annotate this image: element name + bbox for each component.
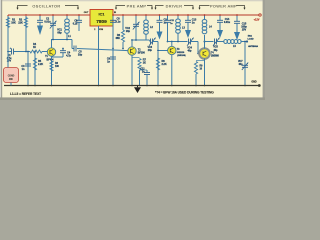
- wire rail to C15: [236, 15, 238, 21]
- svg-text:10K: 10K: [11, 22, 16, 25]
- wire rail to L1: [66, 15, 68, 19]
- wire L3 bottom: [177, 33, 179, 42]
- VC3 arrow: [149, 38, 156, 46]
- capacitor C2: [37, 19, 43, 21]
- junction VC1 bottom: [52, 39, 54, 41]
- junction rail-L2: [145, 14, 147, 16]
- wire to C12: [140, 69, 148, 71]
- junction C7 bottom: [167, 41, 169, 43]
- wire tank node down to output: [71, 40, 73, 49]
- inductor L2: [144, 20, 149, 24]
- inductor L3: [176, 19, 181, 23]
- junction rail-VC2: [135, 14, 137, 16]
- capacitor C14: [217, 19, 223, 21]
- wire to L4: [204, 35, 206, 42]
- capacitor C3: [25, 63, 31, 65]
- wire VC5 to L5: [217, 41, 224, 43]
- svg-text:2.2K: 2.2K: [162, 63, 167, 66]
- wire L5 to antenna: [241, 41, 246, 43]
- junction rail-C13: [187, 14, 189, 16]
- section bracket: POWER AMP: [200, 6, 210, 10]
- wire base node to ground via C3: [27, 52, 29, 86]
- junction VC2 bottom: [135, 39, 137, 41]
- capacitor C5: [73, 46, 75, 52]
- node +12V terminal: [259, 14, 261, 16]
- svg-text:50Ω: 50Ω: [248, 35, 252, 37]
- svg-text:OUT: OUT: [84, 12, 89, 14]
- junction rail-C2: [39, 14, 41, 16]
- transistor T4 (metal can): [199, 48, 210, 59]
- junction rail-C14: [219, 14, 221, 16]
- junction R5 top: [34, 51, 36, 53]
- wire tank to VC3: [146, 39, 150, 41]
- wire C10 down: [159, 22, 161, 31]
- svg-text:20p: 20p: [148, 49, 153, 52]
- wire T2 emitter to ground: [131, 55, 133, 86]
- junction T4 collector node: [204, 41, 206, 43]
- wire down to T3 base: [157, 42, 159, 51]
- regulator IC1 7809: [90, 10, 113, 27]
- junction C3 top: [27, 51, 29, 53]
- wire to ground via C9: [112, 49, 114, 86]
- wire C14 down: [219, 22, 221, 30]
- ground arrow below C2: [37, 26, 43, 36]
- variable capacitor VC4: [188, 39, 190, 45]
- junction rail-VC1: [52, 14, 54, 16]
- wire collector to VC5: [205, 41, 214, 43]
- variable capacitor VC2: [133, 23, 139, 25]
- variable capacitor VC6 (trimmer): [242, 64, 248, 66]
- inductor L5: [224, 40, 228, 44]
- wire to C5: [72, 48, 74, 50]
- transistor T2: [128, 47, 136, 55]
- svg-text:BF494: BF494: [47, 58, 55, 61]
- wire emitter to R7: [132, 57, 140, 59]
- variable capacitor VC3: [150, 39, 152, 45]
- svg-text:L1-L5 = REFER TEXT: L1-L5 = REFER TEXT: [10, 92, 41, 96]
- wire into T3 base: [158, 50, 168, 52]
- junction rail-L1: [66, 14, 68, 16]
- wire rail to VC1: [52, 15, 54, 23]
- wire rail to R6: [122, 15, 124, 30]
- svg-text:(2N5109): (2N5109): [177, 55, 186, 57]
- VC5 arrow: [213, 38, 220, 46]
- svg-text:10p: 10p: [78, 54, 83, 57]
- svg-text:POWER AMP: POWER AMP: [210, 5, 237, 9]
- ground symbol (earth triangle): [137, 86, 139, 88]
- svg-text:40p: 40p: [239, 63, 244, 66]
- wire +12V rail (regulator input): [112, 14, 259, 16]
- ground arrow below C10: [157, 32, 163, 40]
- svg-text:4.7p: 4.7p: [66, 55, 71, 58]
- junction rail-L3: [177, 14, 179, 16]
- junction L3 bottom: [177, 41, 179, 43]
- svg-text:68p: 68p: [57, 32, 62, 35]
- svg-text:1n: 1n: [192, 22, 195, 25]
- capacitor C1: [11, 49, 13, 55]
- capacitor C6: [76, 19, 82, 21]
- wire C7 down to collector node: [167, 22, 169, 41]
- svg-text:68K: 68K: [116, 37, 121, 40]
- wire rail to C14: [219, 15, 221, 20]
- node GND terminal: [258, 84, 261, 87]
- svg-text:1K: 1K: [33, 46, 36, 49]
- svg-text:22K: 22K: [18, 22, 23, 25]
- junction rail-C8: [112, 14, 114, 16]
- junction rail-R2: [25, 14, 27, 16]
- capacitor C8: [110, 19, 116, 21]
- wire T3 emitter to ground: [171, 55, 173, 86]
- resistor R5: [33, 58, 36, 70]
- wire T2 collector to tank: [131, 40, 133, 47]
- capacitor C12: [144, 72, 150, 74]
- wire C6 lower lead: [78, 22, 80, 31]
- junction VC6 top: [244, 41, 246, 43]
- capacitor C13: [185, 19, 191, 21]
- wire T1 emitter to ground: [51, 56, 53, 86]
- wire down to T4 base: [197, 42, 199, 54]
- junction R2 bottom / base network: [25, 51, 27, 53]
- capacitor C7: [165, 19, 171, 21]
- wire C2 to ground arrow: [39, 22, 41, 25]
- VC1 arrow: [50, 21, 57, 29]
- wire rail to C8: [112, 15, 114, 20]
- resistor R9: [194, 62, 197, 75]
- inductor L1: [65, 19, 70, 23]
- wire VC3 to T3 base bend: [153, 41, 159, 43]
- VC4 arrow: [187, 38, 194, 46]
- wire T3 collector line: [168, 41, 188, 43]
- svg-text:LOAD: LOAD: [248, 38, 254, 41]
- resistor R8: [156, 58, 159, 70]
- wire IC1 COM to ground: [98, 26, 100, 86]
- wire C4 to emitter: [52, 56, 64, 58]
- wire R9 to ground: [195, 74, 197, 86]
- svg-text:*T4 = BFW 16A USED DURING TEST: *T4 = BFW 16A USED DURING TESTING: [155, 91, 214, 95]
- wire R7 to ground: [139, 70, 141, 86]
- wire into T1 base: [42, 51, 48, 53]
- svg-text:0.01u: 0.01u: [224, 21, 231, 24]
- ground rail: [4, 85, 259, 87]
- svg-text:COND: COND: [8, 76, 15, 78]
- wire L1 to tank bottom: [66, 33, 68, 40]
- wire rail to C13: [187, 15, 189, 20]
- resistor R2: [24, 18, 27, 28]
- resistor R6: [121, 30, 124, 42]
- wire rail to C10: [159, 15, 161, 20]
- svg-text:2N2219: 2N2219: [177, 52, 185, 54]
- wire oscillator tank bottom: [51, 39, 72, 41]
- wire C15 down: [236, 23, 238, 32]
- svg-text:0.1u: 0.1u: [116, 21, 121, 24]
- wire rail to C7: [167, 15, 169, 20]
- resistor R7: [138, 59, 141, 71]
- wire mic to ground: [10, 83, 12, 86]
- svg-text:7809: 7809: [96, 19, 107, 25]
- wire rail to L3: [177, 15, 179, 19]
- wire T4 collector up: [204, 42, 206, 49]
- ground arrow below C14: [217, 30, 223, 38]
- wire base node to ground via R5: [34, 52, 36, 86]
- junction rail-L4: [204, 14, 206, 16]
- wire pre-amp tank bottom: [132, 39, 146, 41]
- wire C12 to ground: [146, 75, 148, 86]
- junction C8 bottom: [112, 48, 114, 50]
- wire oscillator output to T2 base: [77, 49, 128, 51]
- svg-text:PRE AMP: PRE AMP: [127, 5, 147, 9]
- wire / resistor R2 lead: [25, 16, 27, 52]
- wire R6 to base node: [122, 42, 124, 49]
- resistor R1: [6, 18, 9, 28]
- ground arrow below C13: [185, 30, 191, 38]
- wire mic node to C1: [8, 51, 12, 53]
- ground arrow below C15: [234, 32, 240, 40]
- inductor L4: [202, 20, 207, 24]
- wire emitter to R9: [196, 60, 205, 62]
- junction rail-C7: [167, 14, 169, 16]
- svg-text:40p: 40p: [214, 49, 219, 52]
- wire +9V rail (regulator output): [8, 14, 90, 16]
- svg-text:1K: 1K: [143, 62, 146, 65]
- node antenna terminal: [246, 40, 248, 42]
- wire C13 down: [187, 22, 189, 30]
- svg-text:2N3866: 2N3866: [211, 56, 220, 58]
- variable capacitor VC5: [214, 39, 216, 45]
- wire down to T3 collector: [171, 42, 173, 47]
- junction T3 base / R8: [157, 50, 159, 52]
- svg-text:2.2K: 2.2K: [38, 63, 43, 66]
- capacitor C4: [60, 50, 66, 52]
- svg-text:GND: GND: [251, 81, 256, 84]
- wire left rail corner: [7, 15, 9, 17]
- junction C4 top: [62, 48, 64, 50]
- wire VC4 to T4 base bend: [191, 41, 199, 43]
- wire mic node down to mic: [7, 52, 9, 68]
- wire rail to L2: [145, 15, 147, 20]
- resistor R3: [50, 61, 53, 71]
- svg-text:+12V: +12V: [254, 18, 260, 21]
- capacitor C10: [157, 19, 163, 21]
- wire C8 down: [112, 22, 114, 48]
- junction rail-C15: [236, 14, 238, 16]
- wire antenna node to VC6: [244, 42, 246, 86]
- junction mic node: [7, 51, 9, 53]
- svg-text:BF200: BF200: [138, 52, 146, 55]
- junction R6 bottom: [122, 48, 124, 50]
- wire rail to C6: [78, 15, 80, 20]
- junction rail-C6: [78, 14, 80, 16]
- svg-text:40p: 40p: [188, 50, 193, 53]
- svg-text:20p: 20p: [126, 30, 131, 33]
- section bracket: PRE AMP: [116, 6, 125, 10]
- section bracket: DRIVER: [156, 6, 164, 10]
- section bracket: OSCILLATOR: [18, 6, 28, 10]
- junction T3 collector: [171, 41, 173, 43]
- wire tank to T1 collector: [51, 40, 53, 49]
- wire base to ground via R8: [157, 52, 159, 86]
- wire C1 to R4: [14, 51, 31, 53]
- junction L1 bottom: [66, 39, 68, 41]
- wire T4 emitter: [204, 58, 206, 85]
- svg-text:DRIVER: DRIVER: [166, 5, 183, 9]
- junction T4 base: [197, 53, 199, 55]
- capacitor C9: [110, 56, 116, 58]
- junction rail-C10: [159, 14, 161, 16]
- transistor T1: [47, 48, 55, 56]
- wire to C4: [62, 49, 64, 51]
- VC2 arrow: [133, 22, 140, 30]
- wire C12 top lead: [146, 70, 148, 73]
- svg-text:MIC: MIC: [9, 79, 13, 81]
- wire L2 bottom: [145, 34, 147, 40]
- svg-text:25V: 25V: [242, 29, 247, 32]
- capacitor C15: [234, 20, 240, 22]
- junction T2 collector: [131, 39, 133, 41]
- junction dots on ground rail: [27, 85, 29, 87]
- wire left column / resistor R1 lead: [7, 16, 9, 52]
- wire into T4 base: [198, 53, 200, 55]
- VC6 arrow: [242, 63, 248, 71]
- junction rail-R6: [122, 14, 124, 16]
- svg-text:ANTENNA: ANTENNA: [248, 45, 258, 48]
- transistor T3: [168, 46, 176, 54]
- svg-text:2: 2: [94, 29, 95, 31]
- svg-text:OSCILLATOR: OSCILLATOR: [32, 5, 60, 9]
- microphone MIC1 (condenser mic): [4, 68, 19, 83]
- svg-text:IC1: IC1: [99, 11, 106, 16]
- wire rail to C2: [39, 15, 41, 20]
- variable capacitor VC1: [50, 22, 56, 24]
- svg-text:0.1u: 0.1u: [73, 23, 78, 26]
- resistor R4: [30, 50, 42, 53]
- wire rail to VC2: [135, 15, 137, 24]
